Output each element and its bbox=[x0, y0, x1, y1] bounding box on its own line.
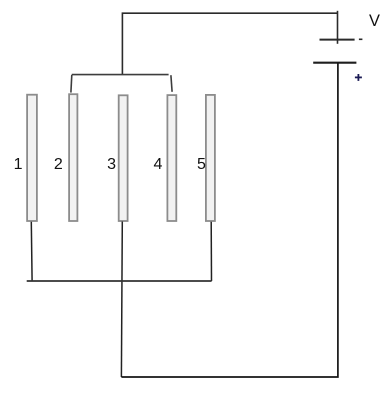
svg-text:3: 3 bbox=[107, 156, 116, 173]
svg-text:V: V bbox=[369, 12, 380, 30]
svg-text:4: 4 bbox=[153, 156, 162, 173]
svg-text:1: 1 bbox=[14, 156, 23, 173]
svg-text:2: 2 bbox=[54, 156, 63, 173]
svg-text:5: 5 bbox=[197, 156, 206, 173]
